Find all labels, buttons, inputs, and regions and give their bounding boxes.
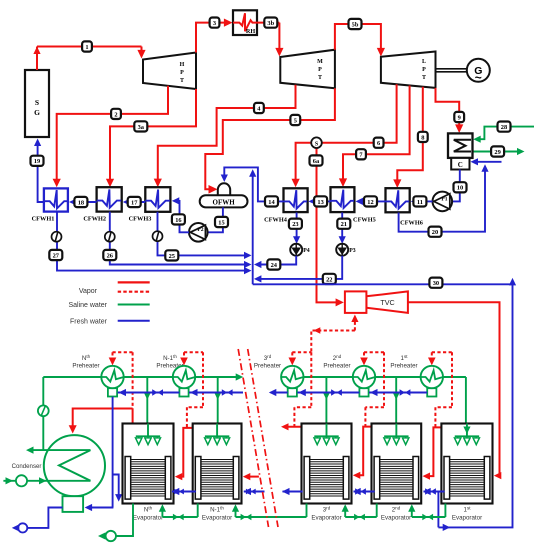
wire brine evaporator 3 to N-1 (break) — [232, 504, 307, 521]
trap valve CFWH2 — [105, 232, 115, 242]
wire 3b RH to MPT — [257, 23, 284, 57]
svg-text:25: 25 — [169, 253, 175, 260]
svg-text:M: M — [317, 59, 323, 65]
svg-text:C: C — [458, 161, 463, 169]
wire distillate break to evaporator N-1 — [244, 488, 265, 495]
evaporator N label — [133, 506, 163, 522]
svg-text:CFWH2: CFWH2 — [83, 215, 106, 222]
svg-text:6a: 6a — [313, 158, 320, 165]
wire saline feed to evaporator 1 — [465, 377, 467, 424]
svg-text:23: 23 — [292, 221, 298, 228]
turbine HPT — [143, 53, 196, 90]
vapor loop to preheater 2 (dashed) — [360, 352, 384, 426]
svg-text:P2: P2 — [197, 227, 203, 233]
wire seawater intake — [3, 475, 90, 486]
wire distillate evaporator 3 to break — [282, 488, 303, 495]
evaporator 2 label — [381, 506, 411, 522]
heater CFWH1 — [32, 188, 68, 222]
condenser HX — [448, 133, 473, 158]
node label 20 — [429, 227, 442, 237]
wire 11 P1 to CFWH6 — [411, 198, 433, 205]
saline pump symbol at condenser outlet — [38, 377, 49, 450]
svg-text:CFWH4: CFWH4 — [264, 216, 288, 223]
node label 10 — [454, 182, 467, 192]
wire 5b MPT to LPT — [335, 24, 385, 57]
wire fresh water preheater N down to condenser — [113, 397, 123, 508]
wire 16 P2 to CFWH3 — [172, 197, 189, 232]
wire riser 30 to OFWH — [249, 169, 256, 284]
svg-text:G: G — [34, 108, 40, 117]
preheater 1 label — [390, 354, 417, 370]
wire makeup stub into C — [471, 158, 502, 165]
reheater RH — [233, 10, 257, 35]
wire 25 CFWH3 drain — [158, 212, 252, 259]
svg-text:Preheater: Preheater — [390, 363, 417, 370]
wire 12 CFWH6 to CFWH5 — [356, 198, 386, 205]
wire 5 MPT to OFWH — [205, 88, 335, 193]
svg-text:26: 26 — [107, 252, 114, 259]
node label 3 — [210, 18, 220, 28]
preheater N1 label — [156, 354, 183, 370]
svg-text:CFWH3: CFWH3 — [129, 215, 152, 222]
legend fresh water — [70, 318, 150, 325]
node label 13 — [314, 196, 327, 206]
wire vapor evaporator 3 to N-1 (broken) — [243, 423, 303, 480]
svg-text:29: 29 — [494, 149, 500, 156]
wire 27 CFWH1 drain — [57, 212, 252, 275]
condenser hotwell box — [63, 496, 84, 512]
svg-text:H: H — [180, 62, 185, 68]
wire 22 P3 drain to riser — [254, 256, 342, 283]
svg-text:P3: P3 — [349, 248, 356, 254]
wire TVC motive outlet to evaporator 1 — [408, 302, 501, 479]
svg-text:8: 8 — [421, 134, 424, 141]
node label 16 — [172, 214, 185, 224]
svg-text:15: 15 — [218, 219, 224, 226]
node label 6a — [310, 155, 323, 165]
svg-text:9: 9 — [458, 114, 461, 121]
evaporator N1 label — [202, 506, 232, 522]
svg-text:18: 18 — [78, 199, 84, 206]
node label 1 — [82, 41, 92, 51]
wire 30 distillate return — [253, 278, 516, 531]
trap valve CFWH1 — [52, 232, 62, 242]
node label 14 — [265, 196, 278, 206]
wire 18 CFWH2 to CFWH1 — [69, 198, 97, 205]
wire vapor evaporator 2 to 3 — [353, 427, 372, 479]
wire 28 cooling water in — [473, 127, 534, 143]
node label 28 — [498, 122, 511, 132]
node label 3b — [264, 18, 277, 28]
wire 20 CFWH6 drain to C — [399, 164, 489, 231]
wire fresh water preheater 1 to 2 — [369, 389, 427, 396]
wire brine evaporator 1 to 2 — [408, 504, 445, 521]
svg-text:5b: 5b — [352, 21, 359, 28]
svg-text:CFWH6: CFWH6 — [400, 220, 423, 227]
wire vapor evaporator N-1 to N — [175, 424, 193, 481]
heater CFWH2 — [83, 187, 121, 222]
svg-text:T: T — [180, 78, 184, 84]
svg-text:20: 20 — [432, 229, 438, 236]
heater CFWH6 — [386, 188, 423, 226]
wire fresh water preheater 2 to 3 — [297, 389, 359, 396]
evaporator N1 — [193, 424, 242, 504]
wire 1 SG to HPT — [33, 47, 145, 71]
preheater 3 — [281, 366, 303, 397]
node label 27 — [49, 250, 62, 260]
node label 29b — [491, 146, 504, 156]
svg-text:S: S — [35, 98, 39, 107]
node label 3a — [134, 121, 147, 131]
svg-text:19: 19 — [34, 158, 40, 165]
wire 3a HPT to CFWH2 — [106, 89, 196, 187]
wire 7 LPT to CFWH5 — [339, 86, 410, 188]
evaporator N — [123, 424, 174, 504]
heater CFWH4 — [264, 188, 307, 223]
legend saline water — [68, 302, 149, 309]
wire 21 CFWH5 to P3 — [339, 213, 346, 244]
svg-text:3b: 3b — [267, 20, 274, 27]
wire distillate evaporator N-1 to N — [172, 488, 196, 495]
generator G — [467, 59, 490, 85]
svg-text:Preheater: Preheater — [323, 363, 350, 370]
wire saline main left — [43, 373, 243, 380]
svg-text:30: 30 — [433, 280, 439, 287]
wire 6 LPT to splitter S — [322, 84, 396, 142]
wire condenser reject out — [26, 447, 91, 454]
wire S to CFWH4 — [292, 143, 312, 188]
node label 4 — [254, 103, 264, 113]
node label 30 — [429, 278, 442, 288]
pump P3 — [336, 244, 356, 256]
node label 15 — [215, 217, 228, 227]
wire TVC suction vapor (dashed) — [311, 315, 358, 353]
svg-text:CFWH1: CFWH1 — [32, 215, 55, 222]
wire 3 HPT to RH — [196, 19, 233, 53]
svg-text:3: 3 — [213, 20, 216, 27]
node label 2 — [111, 109, 121, 119]
svg-text:17: 17 — [131, 199, 138, 206]
wire vapor from evaporator N to condenser — [69, 409, 133, 434]
node label 6 — [374, 138, 384, 148]
svg-text:28: 28 — [501, 124, 507, 131]
wire brine evaporator 2 to 3 — [342, 504, 377, 521]
svg-text:L: L — [422, 59, 426, 65]
preheater N — [101, 366, 123, 397]
svg-text:21: 21 — [341, 221, 347, 228]
heater CFWH5 — [331, 187, 376, 223]
node label 8 — [418, 132, 428, 142]
MED condenser shell — [12, 435, 105, 496]
pump P2 — [189, 223, 208, 242]
svg-text:14: 14 — [268, 199, 275, 206]
node label 5 — [290, 115, 300, 125]
wire 26 CFWH2 drain — [110, 212, 252, 269]
wire 13 CFWH5 to CFWH4 — [309, 198, 331, 205]
preheater 2 — [353, 366, 375, 397]
wire brine blowdown out — [98, 504, 133, 542]
diagram break marks — [238, 349, 278, 527]
wire saline feed to evaporator 3 — [323, 377, 330, 424]
wire 8 LPT to CFWH6 — [393, 87, 423, 188]
wire 15 OFWH to P2 — [208, 207, 223, 232]
wire distillate branch down to return — [437, 492, 439, 528]
wire distillate evaporator 2 to 3 — [353, 488, 375, 495]
wire 9 LPT to condenser — [436, 88, 464, 133]
evaporator 1 label — [452, 506, 482, 522]
svg-text:Evaporator: Evaporator — [381, 515, 411, 522]
svg-text:P: P — [422, 67, 426, 73]
vapor loop to preheater N1 (dashed) — [180, 352, 203, 428]
svg-text:22: 22 — [326, 276, 332, 283]
pump P4 — [290, 244, 310, 256]
wire brine evaporator N-1 to N — [159, 504, 198, 521]
svg-text:Evaporator: Evaporator — [452, 515, 482, 522]
wire distillate evaporator 1 to 2 — [423, 488, 444, 495]
evaporator 3 — [302, 424, 352, 504]
node label 17 — [128, 197, 141, 207]
svg-text:Vapor: Vapor — [79, 288, 98, 295]
preheater N label — [72, 354, 99, 370]
svg-text:12: 12 — [367, 199, 373, 206]
svg-text:P1: P1 — [441, 196, 447, 202]
svg-text:P: P — [180, 70, 184, 76]
svg-text:Saline water: Saline water — [68, 302, 107, 309]
splitter S — [311, 137, 322, 148]
svg-text:Condenser: Condenser — [12, 463, 42, 470]
node label 5b — [349, 19, 362, 29]
preheater 3 label — [254, 354, 281, 370]
wire 23 CFWH4 to P4 — [293, 213, 300, 244]
wire saline feed to evaporator N1 — [214, 377, 221, 424]
svg-text:P: P — [318, 67, 322, 73]
wire 19 CFWH1 to SG — [34, 139, 44, 203]
svg-text:Preheater: Preheater — [254, 363, 281, 370]
steam generator SG — [25, 70, 49, 137]
wire 4 MPT extraction to CFWH3 — [154, 85, 296, 187]
preheater N1 — [173, 366, 195, 397]
turbine LPT — [381, 52, 436, 88]
svg-text:11: 11 — [417, 199, 423, 206]
svg-text:13: 13 — [317, 199, 323, 206]
wire fresh water preheater N-1 to N — [118, 389, 180, 396]
svg-text:16: 16 — [175, 217, 182, 224]
evaporator 1 — [441, 424, 492, 504]
svg-text:10: 10 — [457, 185, 463, 192]
node label 9 — [454, 112, 464, 122]
svg-text:3a: 3a — [138, 124, 145, 131]
svg-text:CFWH5: CFWH5 — [353, 216, 376, 223]
node label 7 — [356, 149, 366, 159]
svg-text:5: 5 — [294, 117, 297, 124]
wire vapor evaporator 1 to 2 — [423, 427, 442, 479]
wire fresh water product out — [12, 508, 63, 533]
svg-text:Preheater: Preheater — [72, 363, 99, 370]
wire fresh water preheater 3 to break — [269, 389, 288, 396]
wire saline main right — [281, 376, 466, 378]
vapor loop to preheater N (dashed) — [109, 352, 133, 408]
wire 10 C to P1 — [452, 170, 460, 202]
svg-text:T: T — [318, 75, 322, 81]
heater CFWH3 — [129, 187, 171, 222]
svg-text:~: ~ — [475, 71, 482, 85]
wire 17 CFWH3 to CFWH2 — [123, 198, 146, 205]
svg-text:1: 1 — [85, 44, 88, 51]
preheater 2 label — [323, 354, 350, 370]
node label 26 — [103, 250, 116, 260]
wire 29 cooling water out — [473, 148, 525, 155]
preheater 1 — [421, 366, 443, 397]
svg-text:Fresh water: Fresh water — [70, 318, 108, 325]
svg-text:Evaporator: Evaporator — [311, 515, 341, 522]
node label 18 — [74, 197, 87, 207]
node label 23 — [289, 219, 302, 229]
svg-text:27: 27 — [53, 252, 60, 259]
svg-text:T: T — [422, 75, 426, 81]
wire 6a S to TVC — [317, 148, 344, 306]
node label 11 — [413, 196, 426, 206]
svg-text:OFWH: OFWH — [213, 199, 236, 207]
shaft LPT to generator — [436, 69, 468, 72]
node label 24 — [267, 259, 280, 269]
node label 25 — [165, 250, 178, 260]
trap valve CFWH3 — [153, 231, 163, 241]
pump P1 — [433, 192, 453, 212]
turbine MPT — [280, 50, 335, 89]
wire 14 CFWH4 to OFWH dome — [221, 167, 284, 201]
wire fresh water break to preheater N-1 — [189, 389, 243, 396]
svg-text:P4: P4 — [303, 248, 310, 254]
wire 24 P4 drain to riser — [254, 256, 296, 268]
wire saline feed to evaporator N — [144, 377, 151, 424]
svg-text:Evaporator: Evaporator — [133, 515, 163, 522]
wire distillate into condenser box — [85, 504, 114, 511]
svg-text:24: 24 — [271, 262, 278, 269]
wire 2 HPT extraction to CFWH1 — [53, 86, 168, 188]
deaerator OFWH — [200, 183, 248, 207]
node label 12 — [364, 196, 377, 206]
wire saline feed to evaporator 2 — [393, 377, 400, 424]
node label 21 — [337, 219, 350, 229]
thermo vapor compressor TVC — [345, 291, 408, 313]
vapor loop to preheater 3 (dashed) — [289, 352, 312, 427]
vapor loop to preheater 1 (dashed) — [428, 352, 452, 427]
svg-text:TVC: TVC — [380, 298, 394, 307]
svg-text:RH: RH — [246, 28, 255, 35]
node label 22 — [323, 274, 336, 284]
condenser hotwell C — [451, 158, 469, 170]
evaporator 3 label — [311, 506, 341, 522]
evaporator 2 — [372, 424, 422, 504]
node label 19 — [31, 156, 44, 166]
svg-text:Evaporator: Evaporator — [202, 515, 232, 522]
legend vapor — [79, 282, 150, 295]
svg-text:2: 2 — [114, 111, 117, 118]
